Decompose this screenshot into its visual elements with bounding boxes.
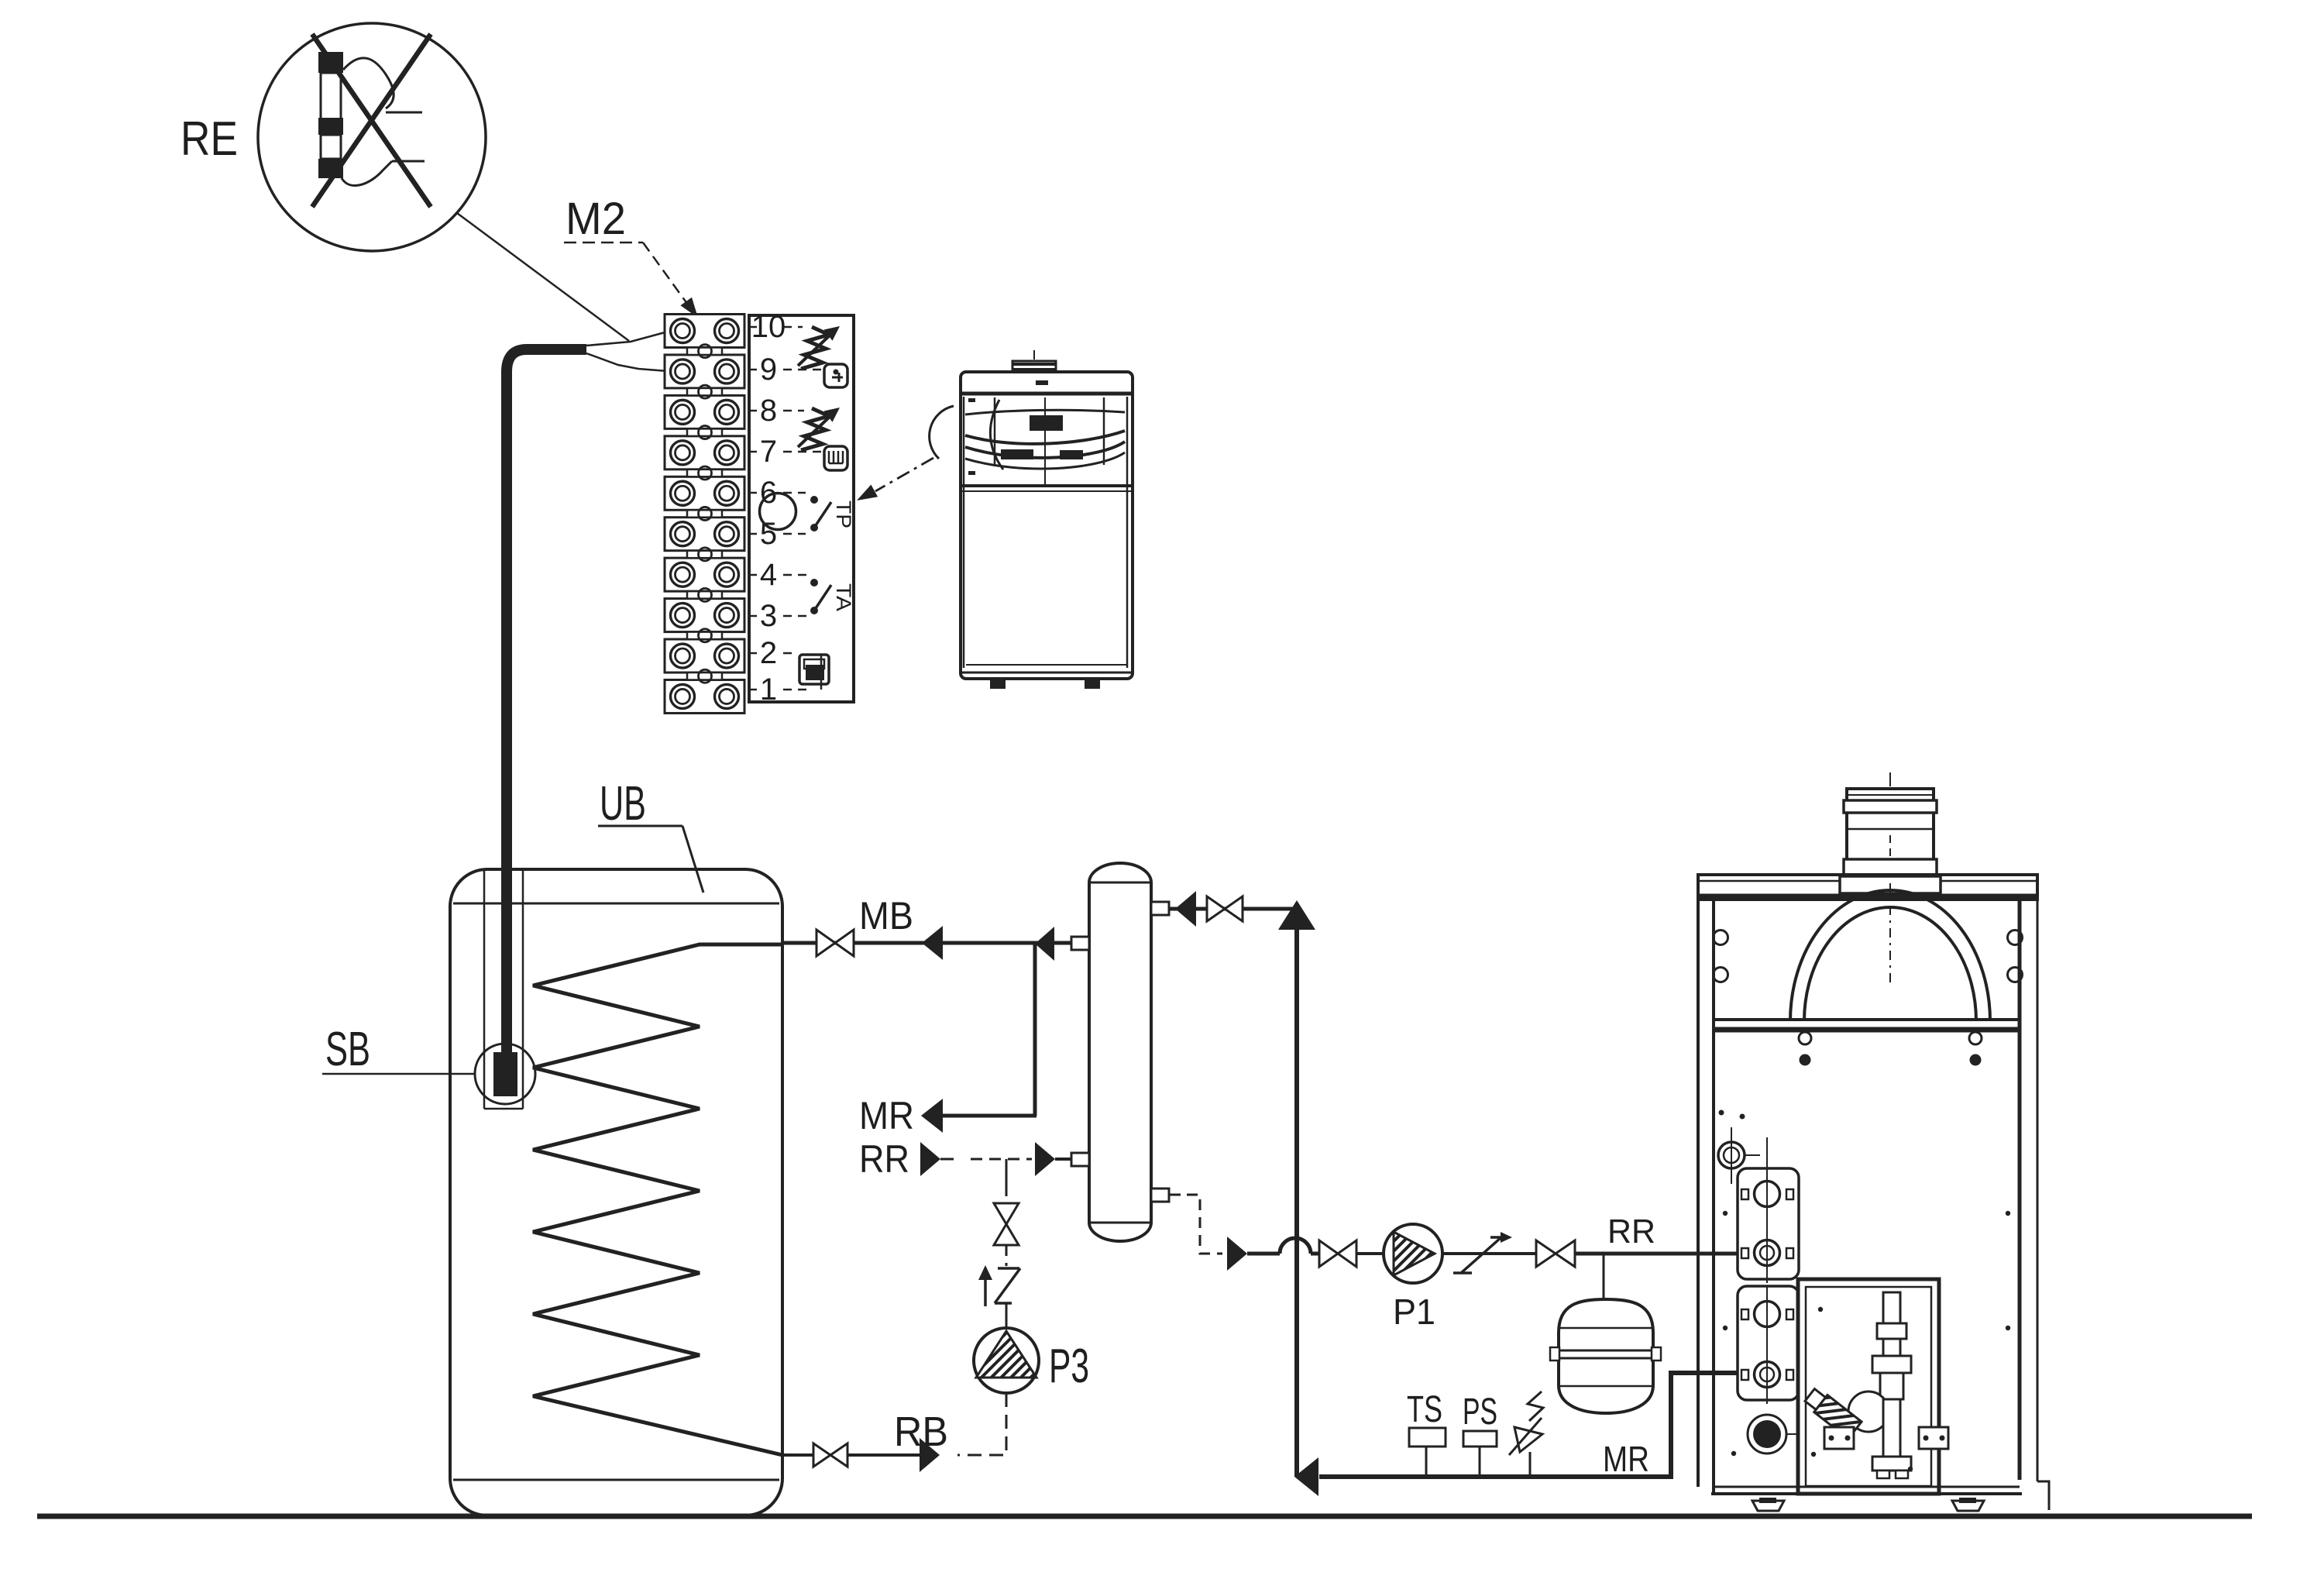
door arch handle bbox=[1790, 883, 1990, 1021]
svg-text:7: 7 bbox=[760, 435, 777, 469]
sensor SB (bulb) bbox=[493, 1052, 517, 1096]
flange plate 2 (MR connection) bbox=[1738, 1286, 1799, 1404]
pipe separator top to riser bbox=[1169, 907, 1298, 911]
pipe RR into boiler bbox=[1575, 1252, 1743, 1256]
valve compartment box bbox=[1798, 1279, 1939, 1494]
storage tank UB bbox=[450, 869, 782, 1515]
boiler cabinet top band bbox=[1698, 875, 2037, 900]
boiler bottom plates bbox=[1711, 1481, 2049, 1510]
svg-text:M2: M2 bbox=[566, 194, 626, 244]
terminal block M2 bbox=[665, 315, 744, 714]
svg-text:MR: MR bbox=[859, 1094, 914, 1137]
flow arrow MB (near separator) bbox=[1035, 927, 1054, 961]
svg-text:9: 9 bbox=[760, 353, 777, 387]
flow arrow up riser bbox=[1278, 900, 1315, 930]
leader line UB bbox=[598, 825, 682, 827]
svg-text:P1: P1 bbox=[1393, 1292, 1435, 1332]
wire to terminal 10 bbox=[586, 332, 668, 346]
room unit circle (terminals 6-5) bbox=[760, 494, 796, 530]
riser pipe bbox=[1294, 909, 1299, 1477]
wire leads of probe bbox=[343, 58, 394, 108]
svg-text:UB: UB bbox=[600, 777, 646, 831]
svg-text:8: 8 bbox=[760, 394, 777, 428]
stub line from separator bottom bbox=[1169, 1194, 1181, 1196]
svg-text:PS: PS bbox=[1463, 1392, 1497, 1433]
svg-text:3: 3 bbox=[760, 599, 777, 633]
icon radiator (terminal 7) bbox=[824, 446, 847, 470]
flow arrow RR (near separator) bbox=[1035, 1142, 1055, 1176]
boiler flue pipe bbox=[1844, 772, 1937, 875]
svg-text:RE: RE bbox=[180, 112, 238, 166]
detail circle RE (crossed-out resistor probe) bbox=[258, 23, 486, 251]
hydraulic separator bbox=[1089, 863, 1151, 1241]
branch pipe MB to MR bbox=[1033, 943, 1037, 1116]
boiler side walls bbox=[1698, 900, 2037, 1494]
svg-text:MR: MR bbox=[1603, 1439, 1649, 1479]
svg-text:TA: TA bbox=[832, 583, 855, 611]
icon boiler (terminal 9) bbox=[824, 364, 847, 387]
boiler feet bbox=[1752, 1501, 1784, 1511]
flow arrow MR bbox=[921, 1099, 943, 1133]
small bolts top left of fittings bbox=[1719, 1110, 1724, 1116]
valve before P1 bbox=[1319, 1240, 1338, 1267]
svg-text:RR: RR bbox=[859, 1137, 909, 1181]
pipe MR (heating flow stub) bbox=[943, 1114, 1037, 1118]
ground line bbox=[37, 1514, 2252, 1519]
icon power supply (terminals 2-1) bbox=[799, 655, 829, 690]
stub RR on separator bbox=[1071, 1153, 1089, 1166]
safety valve bbox=[1509, 1392, 1543, 1477]
pipe P3 to RB bbox=[957, 1393, 1006, 1455]
pointer line RE to wire junction bbox=[457, 213, 629, 341]
valve on RB bbox=[813, 1443, 830, 1467]
svg-text:RR: RR bbox=[1607, 1213, 1655, 1250]
stub MB on separator bbox=[1071, 937, 1089, 950]
svg-text:4: 4 bbox=[760, 558, 777, 592]
flow arrow MB (left) bbox=[922, 926, 943, 960]
band below arch bbox=[1714, 1020, 2020, 1030]
flow arrow MR return bbox=[1294, 1457, 1318, 1496]
sensor cable (thick) from terminal block to tank sensor bbox=[507, 349, 586, 1055]
flow arrow RR (left stub) bbox=[920, 1142, 940, 1176]
flow arrow into separator top bbox=[1175, 891, 1196, 927]
tee to P3 branch bbox=[1006, 1159, 1008, 1185]
valve after P1 bbox=[1536, 1240, 1556, 1267]
svg-text:TS: TS bbox=[1407, 1389, 1442, 1430]
pump P3 bbox=[974, 1328, 1039, 1393]
gas valve assembly bbox=[1803, 1292, 1948, 1478]
check valve on P3 branch bbox=[978, 1265, 1020, 1306]
leader line SB bbox=[322, 1073, 475, 1075]
terminal numbers 10..1 bbox=[749, 310, 786, 707]
dashed pipe bbox=[1006, 1245, 1008, 1266]
pipe MB (tank flow) bbox=[782, 941, 1071, 945]
expansion vessel bbox=[1550, 1299, 1661, 1413]
switch TA (terminals 4-3) bbox=[810, 579, 831, 614]
flue collar bbox=[1840, 876, 1941, 893]
pointer arrow from boiler detail to panel bbox=[875, 458, 933, 491]
svg-text:RB: RB bbox=[894, 1409, 948, 1455]
switch TP (terminals 6-5) bbox=[810, 496, 831, 531]
dashed branch to P3 bbox=[1006, 1185, 1008, 1204]
sensor cable inside tank bbox=[501, 869, 512, 1054]
flow arrow toward P1 bbox=[1227, 1237, 1247, 1271]
magnifier arc on wall boiler bbox=[930, 406, 954, 459]
svg-text:P3: P3 bbox=[1049, 1340, 1089, 1393]
connection panel outline bbox=[749, 315, 854, 702]
sensor symbol (terminals 10-9) bbox=[798, 326, 840, 369]
pipe hop over riser bbox=[1280, 1238, 1311, 1254]
svg-text:SB: SB bbox=[325, 1023, 370, 1076]
highlight circle SB bbox=[475, 1044, 535, 1104]
svg-text:MB: MB bbox=[859, 894, 913, 937]
valve on P3 branch bbox=[994, 1203, 1019, 1224]
svg-text:2: 2 bbox=[760, 636, 777, 670]
pipe MR return from boiler bbox=[1319, 1373, 1743, 1477]
sensor symbol (terminals 8-7) bbox=[798, 408, 840, 450]
tee to expansion vessel bbox=[1603, 1254, 1605, 1300]
dashed links from numbers bbox=[783, 327, 823, 690]
sensor well bbox=[484, 869, 523, 1109]
svg-text:TP: TP bbox=[832, 501, 855, 528]
heating coil bbox=[533, 944, 782, 1455]
stub top-right on separator bbox=[1151, 902, 1169, 915]
svg-text:1: 1 bbox=[760, 673, 777, 707]
check valve after P1 bbox=[1453, 1232, 1512, 1273]
wall boiler unit (detail source) bbox=[961, 350, 1133, 689]
leader line M2 bbox=[564, 242, 643, 244]
panel bolts upper chamber bbox=[1714, 931, 2023, 982]
flange plate 1 (RR connection) bbox=[1738, 1137, 1799, 1283]
dashed pipe RR to separator bbox=[971, 1158, 1032, 1161]
drain connection (dark circle) bbox=[1748, 1415, 1803, 1453]
flow arrow RB bbox=[920, 1438, 940, 1472]
valve on MB bbox=[816, 930, 835, 956]
valve on top return bbox=[1207, 896, 1225, 921]
cross-out X bbox=[312, 34, 431, 207]
dashed elbow to P1 line bbox=[1187, 1195, 1222, 1254]
pump P1 bbox=[1384, 1224, 1442, 1283]
arrowhead M2 leader bbox=[680, 298, 698, 318]
small panel dots bbox=[1723, 1211, 2010, 1471]
top-left pipe fitting bbox=[1718, 1127, 1760, 1184]
wire to terminal 9 bbox=[586, 353, 668, 371]
stub bottom-right on separator bbox=[1151, 1189, 1169, 1202]
arch hook circles bbox=[1799, 1032, 1982, 1066]
pipe RB bbox=[847, 1453, 920, 1457]
